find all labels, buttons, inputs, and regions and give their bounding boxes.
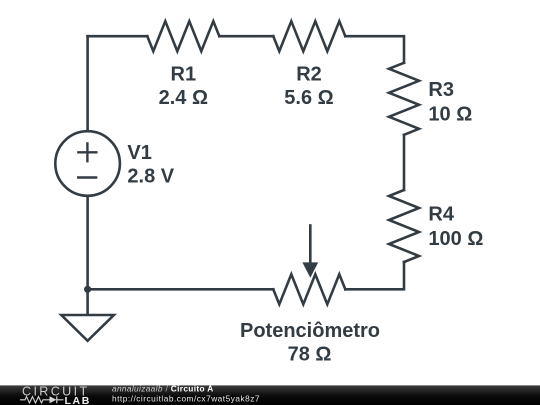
svg-text:LAB: LAB — [65, 395, 91, 405]
V1 plus sign — [77, 151, 97, 153]
wire left: top corner down to V1 — [86, 36, 89, 131]
svg-text:R1: R1 — [171, 63, 197, 85]
svg-text:R4: R4 — [428, 203, 454, 225]
svg-text:2.8 V: 2.8 V — [127, 166, 174, 188]
node junction dot — [84, 286, 91, 293]
svg-text:annaluizaalb / Circuito A: annaluizaalb / Circuito A — [112, 384, 214, 394]
wire R1 to R2 — [219, 35, 273, 38]
potentiometer arrow stem — [309, 226, 312, 265]
logo zigzag resistor — [20, 397, 50, 403]
svg-text:2.4 Ω: 2.4 Ω — [159, 87, 208, 109]
resistor R4 — [389, 190, 419, 262]
svg-text:V1: V1 — [127, 142, 151, 164]
wire potentiometer to bottom-left junction — [88, 288, 274, 291]
svg-text:10 Ω: 10 Ω — [428, 104, 472, 126]
potentiometer P1 zigzag — [273, 274, 345, 304]
resistor R2 — [273, 21, 345, 51]
wire V1 to junction — [86, 196, 89, 289]
logo diode — [50, 396, 57, 403]
svg-text:R2: R2 — [296, 63, 322, 85]
svg-text:R3: R3 — [428, 79, 454, 101]
resistor R1 — [147, 21, 219, 51]
wire R2 to top-right corner down to R3 — [345, 36, 404, 63]
potentiometer arrow head — [302, 262, 318, 277]
svg-text:100 Ω: 100 Ω — [428, 228, 483, 250]
svg-text:78 Ω: 78 Ω — [288, 343, 332, 365]
svg-text:http://circuitlab.com/cx7wat5y: http://circuitlab.com/cx7wat5yak8z7 — [112, 393, 260, 403]
wire R4 to bottom-right corner to potentiometer — [345, 262, 404, 289]
resistor R3 — [389, 63, 419, 135]
V1 minus sign — [77, 176, 97, 179]
svg-text:Potenciômetro: Potenciômetro — [240, 320, 380, 342]
wire R3 to R4 — [403, 135, 406, 190]
svg-text:5.6 Ω: 5.6 Ω — [284, 87, 333, 109]
wire top-left to R1 — [88, 35, 148, 38]
ground symbol — [61, 315, 114, 341]
wire junction to ground — [86, 289, 89, 315]
voltage source V1 circle — [55, 131, 120, 196]
